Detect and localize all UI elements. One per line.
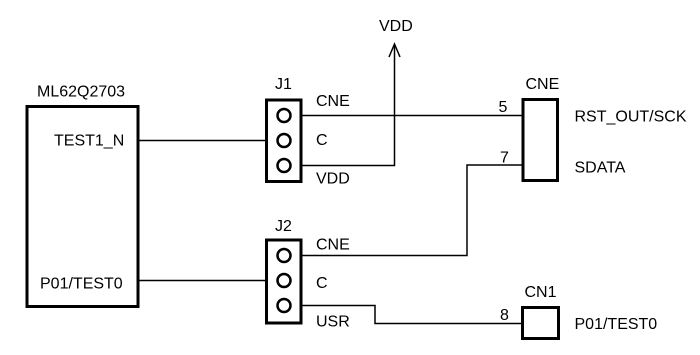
svg-text:J2: J2 xyxy=(275,218,292,235)
svg-text:CNE: CNE xyxy=(526,76,560,93)
svg-text:J1: J1 xyxy=(275,76,292,93)
svg-text:CNE: CNE xyxy=(316,237,350,254)
J1 pin 1 circle xyxy=(278,109,291,122)
wire: IC P01/TEST0 to J2 pin 2 xyxy=(139,280,284,282)
J1 pin 3 circle xyxy=(278,159,291,172)
J2 pin 2 circle xyxy=(278,274,291,287)
svg-text:7: 7 xyxy=(500,150,509,167)
IC U1 ML62Q2703 xyxy=(27,107,138,307)
svg-text:CNE: CNE xyxy=(316,93,350,110)
svg-text:P01/TEST0: P01/TEST0 xyxy=(575,316,658,333)
svg-text:5: 5 xyxy=(499,99,508,116)
connector CNE xyxy=(523,100,558,181)
svg-text:C: C xyxy=(316,132,328,149)
wire: J2 pin 1 (CNE) to CNE pin 7 xyxy=(284,165,522,256)
svg-text:RST_OUT/SCK: RST_OUT/SCK xyxy=(575,109,687,126)
svg-text:TEST1_N: TEST1_N xyxy=(54,133,124,150)
svg-text:VDD: VDD xyxy=(316,171,350,188)
wire CNE net: J1 pin 1 to CNE pin 5 xyxy=(284,115,522,117)
svg-text:VDD: VDD xyxy=(379,18,413,35)
svg-text:C: C xyxy=(316,275,328,292)
svg-text:SDATA: SDATA xyxy=(575,160,626,177)
svg-text:ML62Q2703: ML62Q2703 xyxy=(37,84,125,101)
svg-text:CN1: CN1 xyxy=(525,284,557,301)
svg-text:P01/TEST0: P01/TEST0 xyxy=(40,276,123,293)
connector CN1 xyxy=(523,308,559,339)
power symbol VDD arrowhead xyxy=(389,44,400,57)
J1 pin 2 circle xyxy=(278,134,291,147)
connector J1 xyxy=(267,100,302,182)
J2 pin 3 circle xyxy=(278,299,291,312)
wire TEST1_N from IC to J1 pin 2 xyxy=(139,140,284,142)
connector J2 xyxy=(267,240,302,323)
wire VDD: J1 pin 3 to VDD arrow xyxy=(284,44,395,166)
svg-text:USR: USR xyxy=(316,314,350,331)
svg-text:8: 8 xyxy=(500,307,509,324)
wire USR net: J2 pin 3 to CN1 pin 8 xyxy=(284,306,522,324)
J2 pin 1 circle xyxy=(278,249,291,262)
